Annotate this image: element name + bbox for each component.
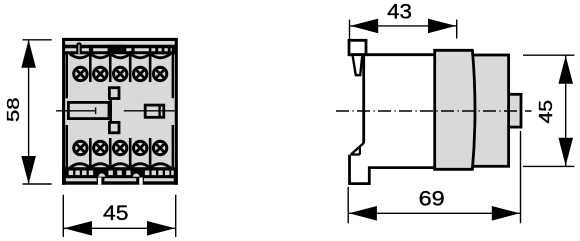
- dim 43 ext line right: [456, 20, 458, 39]
- top right tab marks: [155, 48, 158, 55]
- junction arch left: [98, 173, 105, 176]
- junction arch right: [133, 173, 140, 176]
- dim 69 ext line right: [520, 131, 522, 223]
- connector vertical: [109, 99, 112, 123]
- dim 45 front ext line left: [62, 195, 64, 237]
- dim 45 right ext line bottom: [523, 165, 574, 167]
- top middle bar: [108, 45, 127, 54]
- terminal boss: [509, 94, 521, 127]
- side center line: [336, 110, 532, 112]
- screw terminal top 3: [114, 67, 127, 80]
- right small rect divider: [158, 105, 160, 117]
- dim 45 right ext line top: [523, 54, 574, 56]
- arrow 58 up: [21, 40, 36, 68]
- teeth: [69, 171, 174, 176]
- right small rect: [145, 105, 164, 117]
- top pocket arcs: [70, 54, 171, 58]
- svg-text:69: 69: [419, 187, 445, 211]
- arrow 69 right: [492, 206, 520, 221]
- top pin tab: [77, 43, 80, 54]
- body left edge: [362, 55, 365, 143]
- front center line left segment: [56, 110, 96, 112]
- coil window rect: [68, 102, 109, 118]
- dim 58 ext line top: [23, 39, 52, 41]
- bottom pocket dividers: [90, 138, 150, 168]
- dim 45 right line: [565, 55, 567, 166]
- screw terminal bottom 4: [134, 141, 147, 154]
- screw terminal bottom 5: [153, 141, 166, 154]
- dim 45 front ext line right: [175, 195, 177, 237]
- front center line right segment: [124, 110, 176, 112]
- arrow 69 left: [349, 206, 377, 221]
- segment slot right: [144, 178, 174, 181]
- screw terminal bottom 2: [94, 141, 107, 154]
- small square upper: [109, 88, 119, 99]
- rear block right part: [470, 55, 509, 166]
- right wall stub: [172, 47, 176, 55]
- dim 58 ext line bottom: [23, 183, 52, 185]
- arrow 45 front right: [147, 221, 175, 236]
- divider stub c: [89, 47, 93, 55]
- rail foot: [350, 155, 436, 184]
- dim 43 ext line left: [349, 20, 351, 42]
- segment gap left: [98, 178, 101, 185]
- dim 43 line: [350, 25, 457, 27]
- top pocket dividers: [90, 47, 150, 82]
- svg-text:43: 43: [387, 0, 412, 23]
- front center tick: [95, 107, 97, 114]
- arrow 43 right: [428, 19, 456, 34]
- rail hook diagonal: [351, 143, 364, 155]
- screw terminal top 1: [74, 67, 87, 80]
- dim 69 ext line left: [347, 187, 349, 223]
- segment slot middle: [104, 178, 136, 181]
- arrow 45 right down: [558, 138, 573, 166]
- body top line: [349, 53, 436, 56]
- arrow 58 down: [21, 156, 36, 184]
- svg-text:58: 58: [3, 97, 23, 122]
- top strip line A: [64, 45, 176, 49]
- svg-text:45: 45: [535, 100, 556, 124]
- dim 45 front line: [63, 227, 175, 229]
- arrow 43 left: [350, 19, 378, 34]
- rail trapezoid: [353, 56, 363, 75]
- segment gap right: [139, 178, 142, 185]
- dim 69 line: [348, 212, 520, 214]
- front view housing outline: [64, 39, 177, 184]
- arrow 45 front left: [64, 221, 92, 236]
- rail top square: [349, 40, 366, 54]
- segment slot left: [66, 178, 97, 181]
- small square lower: [109, 122, 119, 132]
- rear block left part: [435, 50, 475, 169]
- dim 58 line: [28, 40, 30, 184]
- bottom pocket arcs: [70, 164, 171, 168]
- inner side walls: [67, 52, 173, 168]
- screw terminal top 5: [153, 67, 166, 80]
- screw terminal top 4: [134, 67, 147, 80]
- screw terminal bottom 3: [114, 141, 127, 154]
- top strip line B: [64, 51, 177, 54]
- bottom strip band: [62, 167, 178, 185]
- arrow 45 right up: [558, 56, 573, 84]
- screw terminal bottom 1: [74, 141, 87, 154]
- screw terminal top 2: [94, 67, 107, 80]
- svg-text:45: 45: [103, 201, 129, 225]
- hook detail: [351, 147, 360, 155]
- divider stub e: [131, 47, 134, 55]
